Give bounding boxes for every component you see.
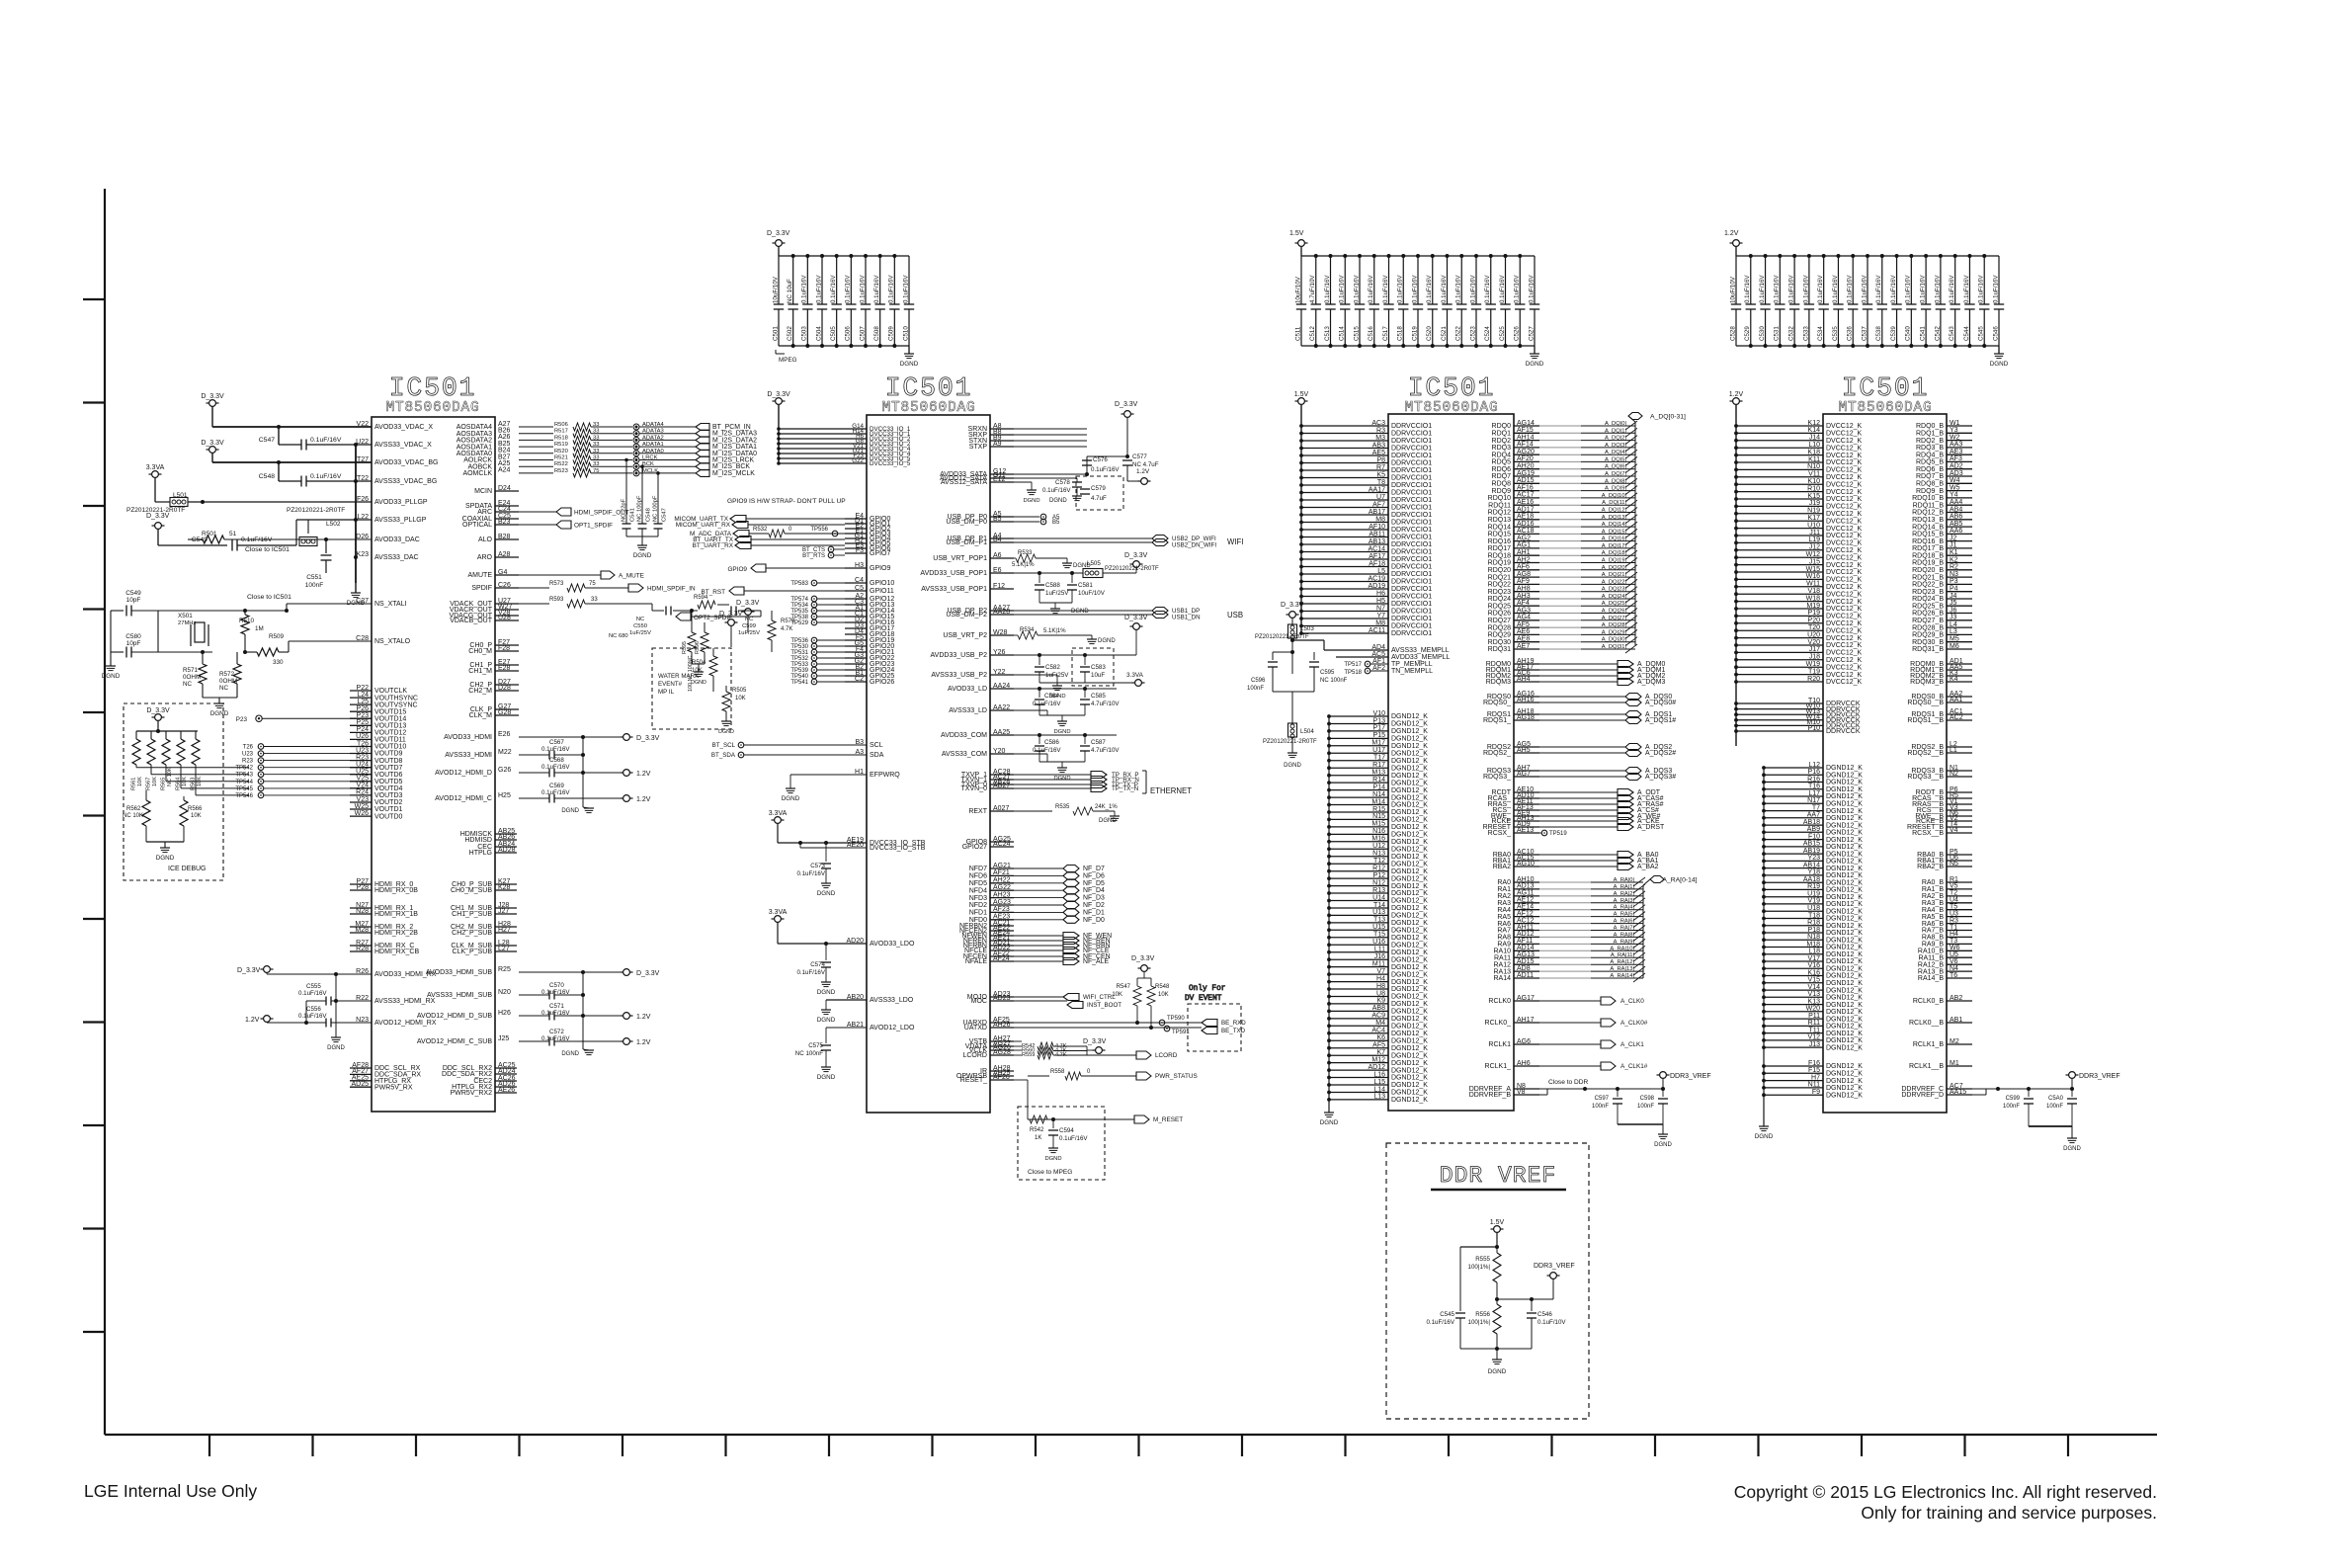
svg-text:10K: 10K (1112, 992, 1122, 998)
svg-text:A_DQ|29|: A_DQ|29| (1602, 629, 1626, 635)
svg-text:C576: C576 (1093, 456, 1108, 463)
svg-text:0.1uF/16V: 0.1uF/16V (830, 275, 837, 303)
svg-text:WATER MARK: WATER MARK (658, 673, 700, 680)
svg-text:L11: L11 (1374, 947, 1385, 953)
svg-text:W11: W11 (1806, 581, 1820, 588)
svg-text:L503: L503 (1300, 625, 1314, 632)
svg-text:NFD4: NFD4 (969, 887, 987, 894)
svg-text:A_DQ|20|: A_DQ|20| (1602, 565, 1626, 571)
svg-text:DGND12_K: DGND12_K (1391, 898, 1428, 905)
svg-text:DGND12_K: DGND12_K (1391, 751, 1428, 758)
svg-text:C511: C511 (1294, 326, 1301, 341)
svg-text:K1: K1 (1950, 549, 1958, 556)
svg-text:T11: T11 (1808, 1027, 1820, 1033)
svg-text:DVCC33_IO_5: DVCC33_IO_5 (870, 460, 911, 467)
svg-text:USB: USB (1227, 611, 1243, 619)
svg-text:B5: B5 (993, 516, 1002, 523)
svg-text:DGND: DGND (817, 989, 836, 996)
svg-text:AD25: AD25 (351, 1081, 369, 1088)
wire MEMPLL to filter (1324, 649, 1388, 651)
svg-text:W12: W12 (1806, 551, 1821, 558)
svg-text:DDRVCCIO1: DDRVCCIO1 (1391, 571, 1432, 578)
svg-text:DGND: DGND (782, 795, 800, 802)
ground DGND in ICE DEBUG (164, 842, 166, 848)
svg-text:TP583: TP583 (790, 581, 808, 587)
ground DGND IC501-D (1759, 1125, 1769, 1127)
svg-text:DGND12_K: DGND12_K (1391, 743, 1428, 750)
svg-text:F15: F15 (1808, 1067, 1820, 1074)
capacitor C515 0.1uF/16V (1359, 256, 1361, 304)
svg-text:BE_TXD: BE_TXD (1221, 1028, 1246, 1034)
svg-text:Copyright © 2015 LG Electronic: Copyright © 2015 LG Electronics Inc. All… (1734, 1482, 2157, 1502)
svg-text:D_3.3V: D_3.3V (1083, 1038, 1107, 1045)
svg-text:ADATA4: ADATA4 (642, 422, 664, 428)
svg-text:U10: U10 (1807, 522, 1820, 529)
svg-text:4.7uF/10V: 4.7uF/10V (1091, 747, 1120, 754)
svg-text:DGND12_K: DGND12_K (1826, 980, 1863, 987)
svg-text:AVSS33_VDAC_BG: AVSS33_VDAC_BG (374, 478, 437, 485)
svg-text:SCL: SCL (870, 742, 883, 749)
svg-text:R542: R542 (1030, 1127, 1044, 1133)
pins RBA_B (1947, 854, 1972, 856)
wire A_DQ gather bus (1634, 422, 1636, 645)
svg-text:P4: P4 (1950, 586, 1958, 593)
svg-text:100nF: 100nF (2046, 1104, 2063, 1110)
svg-text:A_DQS0#: A_DQS0# (1645, 700, 1676, 706)
dashed box C579 4.7uF (1076, 476, 1123, 510)
svg-text:GPIO27: GPIO27 (962, 844, 987, 851)
svg-text:AVSS33_DAC: AVSS33_DAC (374, 554, 419, 561)
svg-text:AE3: AE3 (1950, 449, 1962, 455)
svg-text:P20: P20 (1808, 618, 1821, 624)
resistor R534 5.1K|1% (1014, 634, 1018, 636)
svg-text:RDQ5: RDQ5 (1492, 459, 1512, 466)
svg-text:H27: H27 (498, 927, 511, 934)
wire bottom bus of cap bank C501 (779, 345, 909, 347)
svg-text:W26: W26 (355, 810, 370, 817)
svg-text:AVSS33_COM: AVSS33_COM (942, 751, 987, 758)
svg-text:RDQ20: RDQ20 (1488, 567, 1511, 574)
svg-text:C510: C510 (902, 326, 909, 341)
svg-text:RBA2: RBA2 (1493, 864, 1511, 870)
svg-text:0.1uF/16V: 0.1uF/16V (541, 746, 570, 753)
svg-text:DDRVCCIO1: DDRVCCIO1 (1391, 490, 1432, 497)
svg-text:10uF/10V: 10uF/10V (1729, 276, 1736, 303)
power 1.2V HDMI D SUB (623, 1013, 630, 1020)
svg-text:DGND: DGND (817, 1017, 836, 1024)
svg-text:A_DQ|14|: A_DQ|14| (1602, 522, 1626, 528)
svg-text:P16: P16 (1808, 769, 1821, 776)
capacitor C526 0.1uF/16V (1519, 256, 1521, 304)
svg-text:A3: A3 (855, 749, 864, 756)
svg-text:10uF/10V: 10uF/10V (772, 276, 779, 303)
svg-text:DDC_SDA_RX2: DDC_SDA_RX2 (442, 1071, 492, 1078)
svg-text:U17: U17 (1372, 747, 1385, 754)
svg-text:0.1uF/16V: 0.1uF/16V (1368, 275, 1374, 303)
svg-text:V5: V5 (1950, 883, 1958, 890)
svg-text:0.1uF/16V: 0.1uF/16V (298, 1013, 327, 1020)
svg-text:M_RESET: M_RESET (1153, 1116, 1183, 1123)
svg-text:A9: A9 (993, 441, 1002, 448)
svg-text:RDQ29_B: RDQ29_B (1912, 632, 1944, 639)
svg-text:5.1K|1%: 5.1K|1% (1043, 628, 1066, 634)
svg-text:RDQ2_B: RDQ2_B (1916, 438, 1944, 445)
svg-text:C512: C512 (1309, 326, 1316, 341)
svg-text:DDRVCCIO1: DDRVCCIO1 (1391, 564, 1432, 571)
svg-text:RDQS2__B: RDQS2__B (1907, 750, 1944, 757)
svg-text:C547: C547 (662, 508, 668, 522)
capacitor C523 0.1uF/16V (1475, 256, 1477, 304)
svg-text:DGND: DGND (1023, 498, 1039, 504)
svg-text:RDQ22: RDQ22 (1488, 582, 1511, 589)
svg-text:0.1uF/16V: 0.1uF/16V (873, 275, 880, 303)
svg-text:C569: C569 (549, 783, 564, 789)
svg-text:RDQ9: RDQ9 (1492, 488, 1512, 495)
svg-text:C567: C567 (549, 739, 564, 746)
svg-text:V18: V18 (1808, 588, 1821, 595)
svg-text:HDMI_RX_1B: HDMI_RX_1B (374, 911, 418, 918)
svg-text:RDQ8_B: RDQ8_B (1916, 481, 1944, 488)
svg-text:0.1uF/16V: 0.1uF/16V (1759, 275, 1766, 303)
ground DGND clock caps (641, 536, 643, 545)
svg-text:AF10: AF10 (1369, 524, 1385, 531)
capacitor C514 0.1uF/16V (1344, 256, 1346, 304)
svg-text:AF24: AF24 (993, 955, 1010, 962)
pins DDR control flags (1514, 791, 1539, 793)
svg-text:AG21: AG21 (993, 863, 1011, 869)
svg-text:WIFI: WIFI (1227, 537, 1243, 546)
svg-text:J6: J6 (1950, 607, 1957, 614)
svg-text:SDA: SDA (870, 752, 884, 759)
svg-text:A_RA|3|: A_RA|3| (1614, 898, 1634, 904)
svg-text:A_DQ|18|: A_DQ|18| (1602, 550, 1626, 556)
svg-text:RA8: RA8 (1497, 935, 1511, 942)
svg-text:DGND: DGND (1990, 361, 2009, 368)
svg-text:V16: V16 (1808, 962, 1821, 969)
svg-text:NS_XTALO: NS_XTALO (374, 638, 411, 645)
svg-text:AE13: AE13 (1517, 827, 1534, 834)
svg-text:ADATA1: ADATA1 (642, 442, 664, 448)
svg-text:J11: J11 (1809, 530, 1820, 536)
svg-text:DVCC12_K: DVCC12_K (1826, 577, 1863, 584)
svg-text:LCORD: LCORD (1155, 1052, 1178, 1059)
svg-text:0.1uF/16V: 0.1uF/16V (1484, 275, 1491, 303)
svg-text:N15: N15 (1372, 813, 1385, 820)
svg-text:T19: T19 (1808, 668, 1820, 675)
svg-text:INST_BOOT: INST_BOOT (1087, 1002, 1121, 1009)
capacitor C532 0.1uF/16V (1793, 256, 1795, 304)
svg-text:N18: N18 (1807, 934, 1820, 941)
svg-text:10K: 10K (735, 696, 746, 701)
capacitor C534 0.1uF/16V (1823, 256, 1825, 304)
svg-text:DGND12_K: DGND12_K (1391, 1001, 1428, 1008)
svg-text:R562: R562 (126, 806, 141, 812)
pins IC501-A left power group (371, 426, 373, 428)
svg-text:A_DQ|8|: A_DQ|8| (1605, 478, 1626, 484)
power 1.2V HDMI_RX left (264, 1016, 271, 1023)
svg-text:AVSS33_HDMI: AVSS33_HDMI (445, 752, 492, 759)
svg-text:AVDD33_USB_POP1: AVDD33_USB_POP1 (920, 570, 987, 577)
svg-text:RDQ7: RDQ7 (1492, 473, 1512, 480)
svg-text:C571: C571 (549, 1003, 564, 1010)
flag A_DQ[0-31] (1628, 413, 1642, 420)
svg-text:AB19: AB19 (1803, 848, 1820, 855)
svg-text:NF_D4: NF_D4 (1083, 887, 1105, 894)
svg-text:A_DQS1#: A_DQS1# (1645, 717, 1676, 724)
svg-text:USB_DM_P2: USB_DM_P2 (946, 612, 987, 619)
svg-text:H3: H3 (855, 562, 864, 569)
svg-text:AG18: AG18 (1517, 714, 1535, 721)
pins IC501-D DGND12_K left (1764, 767, 1823, 769)
svg-text:DVCC12_K: DVCC12_K (1826, 540, 1863, 547)
svg-text:0.1uF/16V: 0.1uF/16V (1832, 275, 1839, 303)
svg-text:M12: M12 (1371, 1056, 1385, 1063)
svg-text:UATXD: UATXD (964, 1025, 987, 1032)
svg-text:V12: V12 (1808, 1034, 1821, 1041)
svg-text:W19: W19 (1806, 661, 1821, 668)
svg-text:RDQ4_B: RDQ4_B (1916, 452, 1944, 458)
svg-text:R12: R12 (1372, 866, 1385, 872)
svg-text:W15: W15 (1806, 566, 1821, 573)
svg-text:AVOD33_HDMI_SUB: AVOD33_HDMI_SUB (426, 969, 493, 976)
svg-text:27MHz: 27MHz (178, 620, 196, 626)
svg-text:R15: R15 (1372, 806, 1385, 813)
svg-text:R20: R20 (1807, 676, 1820, 683)
svg-text:DVCC12_K: DVCC12_K (1826, 635, 1863, 642)
svg-text:D_3.3V: D_3.3V (767, 391, 790, 398)
svg-text:NFD7: NFD7 (969, 866, 987, 872)
svg-text:AC11: AC11 (1369, 627, 1385, 634)
svg-text:RCLK0_B: RCLK0_B (1913, 998, 1944, 1005)
svg-text:RDQ25_B: RDQ25_B (1912, 603, 1944, 610)
pins IR OPWRSB RESET_ (990, 1070, 1014, 1072)
svg-text:RDQ17: RDQ17 (1488, 545, 1511, 552)
power D_3.3V near OPT2 (728, 619, 735, 626)
svg-text:RDQM3_B: RDQM3_B (1910, 679, 1944, 686)
svg-text:DVCC12_K: DVCC12_K (1826, 489, 1863, 496)
pins RDQS pairs flags (1514, 696, 1539, 698)
svg-text:AA18: AA18 (1803, 876, 1820, 883)
svg-text:RDQ21_B: RDQ21_B (1912, 574, 1944, 581)
svg-text:RDQ22_B: RDQ22_B (1912, 582, 1944, 589)
svg-text:DVCC12_K: DVCC12_K (1826, 554, 1863, 561)
svg-text:DGND: DGND (1099, 818, 1117, 824)
svg-text:DGND: DGND (1654, 1142, 1672, 1148)
capacitor C508 0.1uF/16V (879, 256, 881, 304)
svg-text:D_3.3V: D_3.3V (719, 611, 743, 618)
power D_3.3V HDMI SUB (623, 969, 630, 976)
svg-text:10K: 10K (152, 777, 158, 786)
svg-text:DVCC12_K: DVCC12_K (1826, 614, 1863, 620)
svg-text:DGND12_K: DGND12_K (1391, 986, 1428, 993)
power D_3.3V MEMPLL filter (1289, 612, 1296, 619)
svg-text:AB9: AB9 (1807, 826, 1820, 833)
svg-text:DGND12_K: DGND12_K (1826, 765, 1863, 772)
op-amp-style IC body IC501 block C MT85060DAG (1388, 414, 1514, 1111)
wires NFD data to flags (990, 867, 1014, 869)
svg-text:B3: B3 (855, 739, 864, 746)
svg-text:F16: F16 (1808, 1060, 1820, 1067)
svg-text:MT85060DAG: MT85060DAG (881, 400, 975, 416)
svg-text:M28: M28 (355, 927, 369, 934)
svg-text:AVOD33_VDAC_BG: AVOD33_VDAC_BG (374, 459, 438, 466)
svg-text:VOUTD8: VOUTD8 (374, 758, 403, 765)
ruler bottom edge line (105, 1434, 2157, 1436)
svg-text:DDRVCCIO1: DDRVCCIO1 (1391, 460, 1432, 467)
svg-text:DGND: DGND (633, 552, 652, 559)
svg-text:DGND12_K: DGND12_K (1826, 894, 1863, 901)
svg-text:10K: 10K (191, 813, 202, 819)
svg-text:RDQ23_B: RDQ23_B (1912, 589, 1944, 596)
svg-text:DGND12_K: DGND12_K (1391, 839, 1428, 846)
svg-text:D_3.3V: D_3.3V (146, 707, 170, 714)
svg-text:AD12: AD12 (1368, 1064, 1385, 1071)
svg-text:LRCK: LRCK (642, 455, 658, 461)
svg-text:T16: T16 (1808, 784, 1820, 790)
capacitor C535 0.1uF/16V (1837, 256, 1839, 304)
wire DDRVREF to C597 C598 (1539, 1088, 1663, 1090)
svg-text:AVSS33_LDO: AVSS33_LDO (870, 997, 914, 1004)
svg-text:A_RA|6|: A_RA|6| (1614, 919, 1634, 925)
svg-text:DGND12_K: DGND12_K (1391, 1090, 1428, 1097)
pin AVSS33_LDO DGND (866, 999, 868, 1001)
pin AVDD12_LDO C575 (866, 1027, 868, 1029)
svg-text:ICE DEBUG: ICE DEBUG (168, 866, 207, 872)
svg-text:0.1uF/16V: 0.1uF/16V (541, 764, 570, 771)
svg-text:H8: H8 (1376, 983, 1385, 990)
svg-text:DGND12_K: DGND12_K (1391, 1052, 1428, 1059)
svg-text:AG22: AG22 (993, 884, 1011, 891)
svg-text:DDRVCCIO1: DDRVCCIO1 (1391, 601, 1432, 608)
svg-text:REXT: REXT (968, 808, 987, 815)
svg-text:DGND: DGND (1526, 361, 1544, 368)
svg-text:A28: A28 (498, 551, 511, 558)
svg-text:AF18: AF18 (1369, 560, 1385, 567)
svg-text:AVSS33_HDMI_SUB: AVSS33_HDMI_SUB (427, 992, 492, 999)
svg-text:IC501: IC501 (1842, 373, 1930, 403)
capacitor C501 10uF/10V (778, 256, 780, 304)
capacitor C576 0.1uF/16V (1014, 473, 1087, 475)
svg-text:K9: K9 (1376, 998, 1385, 1005)
svg-text:0.1uF/16V: 0.1uF/16V (298, 990, 327, 997)
svg-text:BE_RXD: BE_RXD (1221, 1020, 1246, 1027)
svg-text:A_DQ|16|: A_DQ|16| (1602, 536, 1626, 542)
svg-text:CLK_P_SUB: CLK_P_SUB (453, 949, 493, 955)
wire DGND bus IC501-C (1328, 716, 1330, 1100)
svg-text:RDQ10_B: RDQ10_B (1912, 495, 1944, 502)
svg-text:3.3VA: 3.3VA (769, 810, 788, 817)
resistor R593 33 (519, 603, 549, 605)
svg-text:DDRVCCIO1: DDRVCCIO1 (1391, 423, 1432, 430)
svg-text:DGND12_K: DGND12_K (1826, 780, 1863, 786)
svg-text:1.2V: 1.2V (1136, 468, 1150, 475)
svg-text:N17: N17 (1807, 797, 1820, 804)
svg-text:DDRVCCIO1: DDRVCCIO1 (1391, 549, 1432, 556)
resistor R556 100|1%| (1493, 1304, 1501, 1334)
svg-text:100nF: 100nF (1637, 1104, 1654, 1110)
svg-text:Close to DDR: Close to DDR (1548, 1079, 1589, 1086)
svg-text:RDQ16: RDQ16 (1488, 538, 1511, 545)
svg-text:DDRVREF_B: DDRVREF_B (1469, 1092, 1512, 1099)
svg-text:RDQS2_: RDQS2_ (1483, 750, 1511, 757)
svg-text:DDRVCCIO1: DDRVCCIO1 (1391, 438, 1432, 445)
svg-text:DGND12_K: DGND12_K (1826, 822, 1863, 829)
svg-text:0.1uF/16V: 0.1uF/16V (1890, 275, 1897, 303)
svg-text:AD28: AD28 (498, 847, 516, 854)
svg-text:DGND: DGND (1044, 1156, 1061, 1162)
pins IC501-A audio data outputs right (494, 426, 496, 428)
svg-text:T8: T8 (1377, 479, 1385, 486)
svg-text:C518: C518 (1397, 326, 1404, 341)
power 1.2V above IC501-D bus (1733, 398, 1740, 405)
svg-text:P8: P8 (1376, 456, 1385, 463)
svg-text:N5: N5 (1950, 861, 1958, 867)
svg-text:A_MUTE: A_MUTE (619, 573, 644, 580)
svg-text:C522: C522 (1455, 326, 1462, 341)
svg-text:DGND12_K: DGND12_K (1826, 866, 1863, 872)
svg-text:AB17: AB17 (1369, 509, 1385, 516)
svg-text:0.1uF/16V: 0.1uF/16V (796, 870, 825, 877)
svg-text:J18: J18 (1809, 654, 1820, 661)
svg-text:R17: R17 (1372, 762, 1385, 769)
svg-text:RDQ19_B: RDQ19_B (1912, 560, 1944, 567)
svg-text:AG17: AG17 (1517, 995, 1535, 1002)
svg-text:V7: V7 (1376, 968, 1385, 975)
svg-text:AB2: AB2 (1950, 995, 1962, 1002)
svg-text:C524: C524 (1484, 326, 1491, 341)
svg-text:RCLK1_: RCLK1_ (1485, 1063, 1512, 1070)
ground DGND of cap bank C501 (908, 346, 910, 354)
svg-text:C568: C568 (549, 757, 564, 764)
capacitor C546 0.1uF/16V (1998, 256, 2000, 304)
svg-text:C532: C532 (1788, 326, 1795, 341)
svg-text:AA15: AA15 (1950, 1089, 1966, 1096)
svg-text:C599: C599 (742, 623, 756, 629)
svg-text:DVCC12_K: DVCC12_K (1826, 664, 1863, 671)
svg-text:E28: E28 (498, 665, 511, 672)
capacitor C513 0.1uF/16V (1330, 256, 1332, 304)
svg-text:NF_D2: NF_D2 (1083, 902, 1105, 909)
svg-text:C546: C546 (1537, 1311, 1552, 1318)
power D_3.3V GPIO pull R570 (745, 609, 752, 616)
svg-text:R506: R506 (554, 422, 568, 428)
svg-text:4.7uF: 4.7uF (1091, 495, 1107, 502)
svg-text:AF7: AF7 (1372, 501, 1385, 508)
svg-text:L504: L504 (1300, 728, 1314, 735)
svg-text:VOUTD7: VOUTD7 (374, 765, 403, 772)
capacitor C525 0.1uF/16V (1505, 256, 1507, 304)
svg-text:AVSS33_USB_P2: AVSS33_USB_P2 (931, 672, 987, 679)
svg-text:RDQ3: RDQ3 (1492, 445, 1512, 452)
capacitor C530 0.1uF/16V (1765, 256, 1767, 304)
svg-text:AVSS33_USB_POP1: AVSS33_USB_POP1 (921, 586, 987, 593)
pins IC501-C DGND12_K left (1329, 715, 1388, 717)
svg-text:0.1uF/16V: 0.1uF/16V (1875, 275, 1882, 303)
svg-text:DDRVCCIO1: DDRVCCIO1 (1391, 505, 1432, 512)
svg-text:PZ20120221-2R0TF: PZ20120221-2R0TF (1255, 634, 1309, 640)
svg-text:DDRVCCIO1: DDRVCCIO1 (1391, 527, 1432, 534)
svg-text:RDQ27: RDQ27 (1488, 618, 1511, 624)
svg-text:C581: C581 (1078, 582, 1093, 589)
svg-text:R28: R28 (356, 946, 369, 952)
svg-text:C542: C542 (1934, 326, 1941, 341)
resistor R542 1K in MPEG box (1030, 1115, 1047, 1123)
svg-text:AVOD33_LDO: AVOD33_LDO (870, 941, 915, 948)
svg-text:C513: C513 (1324, 326, 1331, 341)
svg-text:A_DQ|27|: A_DQ|27| (1602, 616, 1626, 621)
svg-text:RA11: RA11 (1494, 954, 1511, 961)
svg-text:DDRVCCIO1: DDRVCCIO1 (1391, 497, 1432, 504)
